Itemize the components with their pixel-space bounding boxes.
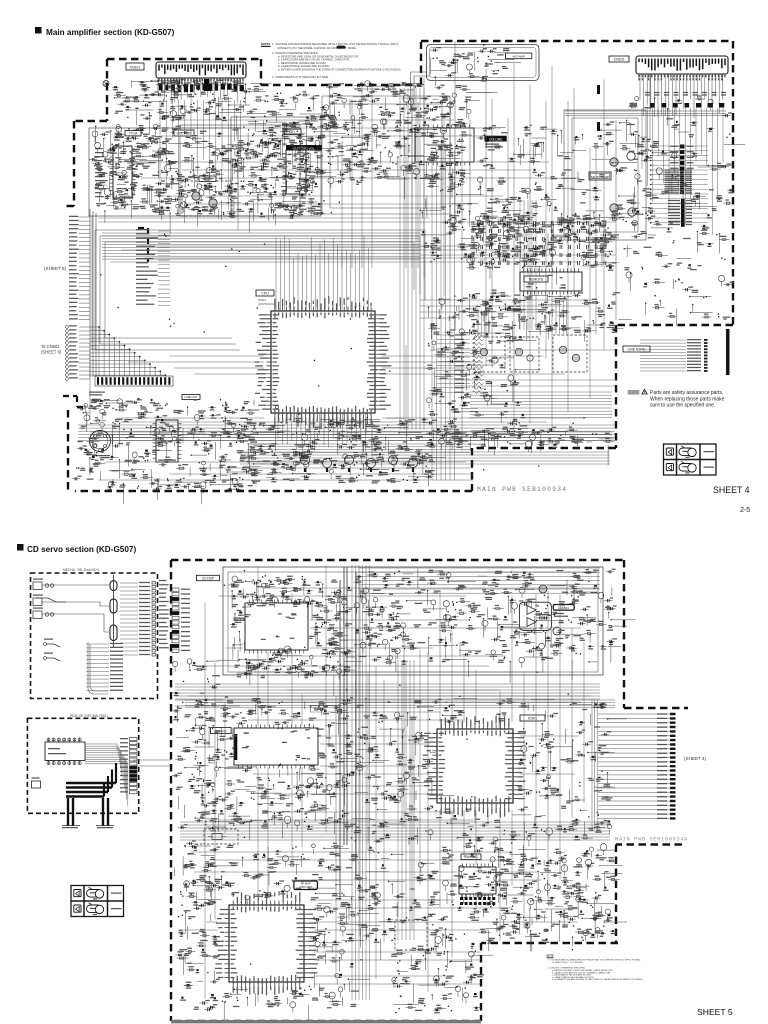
top-right op-amp block [519,602,551,630]
volume IC IC2 [415,128,474,162]
CN601 pin circles [66,326,69,381]
wires joining ladder [651,146,708,223]
tuner exit wire [410,72,430,112]
label box RF AMP heavy border [294,881,318,890]
left exit wires to CN601 [79,327,90,379]
svg-text:Parts are safety assurance par: Parts are safety assurance parts. [650,390,723,396]
svg-text:VOLUME: VOLUME [489,137,502,141]
power IC bottom-center DIP [459,867,496,894]
svg-text:(SHEET 4): (SHEET 4) [684,756,707,761]
leaf switch SW2 [36,598,66,602]
tall connector bar [681,199,685,227]
left block cluster B [174,132,175,133]
safety note gray swatch [628,390,640,395]
left edge connector ladder CD [172,588,179,591]
svg-text:Main amplifier section (KD-G50: Main amplifier section (KD-G507) [46,28,175,37]
below CPU cluster [272,451,273,452]
label box on QFP [520,715,545,721]
driver transistors [539,585,547,593]
label box LINE [182,395,200,400]
misc long horizontals [98,218,616,386]
exit connector labels [62,825,114,827]
mid-right REMOTE amp IC [520,272,582,291]
svg-text:sure to use the specified one.: sure to use the specified one. [650,403,715,409]
CPU bottom pin stub wires [278,413,365,451]
mecha U-curve wires [88,642,108,694]
nested wire loop rectangles center [322,96,450,214]
right connector column labels [704,339,708,341]
wires to right connector [640,340,686,371]
board-edge label column [159,581,169,648]
notes notch dashed border [261,42,421,85]
connector CN101 top-center [156,62,246,78]
svg-text:PICK UP (OPTIMA-7S51): PICK UP (OPTIMA-7S51) [70,714,108,718]
CN102 mid value labels [645,93,726,96]
staircase wires to CN601 connector [90,327,165,376]
black label VOLUME [485,136,507,142]
label box CD DSP [196,575,219,580]
spindle motor pill [110,581,117,591]
CD top-left cluster [302,662,303,663]
legend icon table bottom [71,886,84,902]
svg-text:IC501 6805: IC501 6805 [299,886,312,889]
section header: Main amplifier section (KD-G507) [35,27,42,34]
right of CPU cluster [484,389,485,390]
CD bottom-left cluster [295,846,296,847]
section header: CD servo section (KD-G507) [17,544,24,551]
IC702 DIP [156,420,178,462]
pin name bars for sheet5 wires [69,216,79,319]
mecha right pin ladder [152,581,155,584]
svg-text:When replacing those parts mak: When replacing those parts make [650,396,725,402]
SW sub-board bottom-left circle connector [90,431,111,452]
label LINE MUTE [623,346,650,352]
connector row label [89,392,105,395]
extra top-section long wiring grid [98,64,604,481]
CD mid-left cluster [251,798,252,799]
xtal dashed box [204,829,238,844]
bottom gray scan strip [171,1020,481,1023]
left mid label columns [158,231,170,306]
svg-text:SHEET 4: SHEET 4 [713,485,750,495]
label box LA6541 with heavy border [553,605,574,611]
bottom bus lines [78,425,615,441]
right mid cluster around MUTE AMP [564,110,646,240]
svg-text:IC601: IC601 [258,298,266,302]
digital section IC701 DIP [245,603,308,650]
svg-text:2. UNLESS OTHERWISE SPECIFIED: 2. UNLESS OTHERWISE SPECIFIED. [548,967,586,969]
sub-board outline rectangles left [89,128,238,216]
CD top-right cluster [504,658,505,659]
CD left strip cluster [197,703,198,704]
microcontroller IC601 QFP [271,311,375,413]
svg-text:SHEET 5: SHEET 5 [697,1007,733,1017]
svg-text:1. VOLTAGE AND RESISTANCE MEA: 1. VOLTAGE AND RESISTANCE MEASURED WITH … [272,42,399,46]
svg-text:(SHEET 5): (SHEET 5) [44,266,67,271]
svg-text:e. A CAPACITORS ARE SHOWN IN: e. A CAPACITORS ARE SHOWN IN THE FORM OF… [552,978,643,981]
central dashed mute box [182,181,232,216]
left vertical bus lines [90,209,96,377]
leaf switch SW3 [33,611,42,619]
center-left cluster C [218,192,219,193]
label box 77CA [125,131,141,136]
CD servo main dashed outline [171,560,688,1021]
connector between sections wires [133,700,240,766]
label MUTE AMP [589,172,611,180]
xtal symbol [212,834,222,840]
svg-text:e. B POINT(+)ARE SHOWN IN THE: e. B POINT(+)ARE SHOWN IN THE FORM OF CO… [278,68,401,72]
left exit wires to SHEET 5 [79,217,90,320]
bottom strip cluster [547,432,548,433]
photo diode IC PD1 [45,742,85,761]
transistor row bottom-center [300,455,309,464]
mute block 3 dashed [553,335,587,372]
black label ELECTRONIC VOL [286,145,322,151]
svg-text:To CN601: To CN601 [41,344,60,349]
main board dashed outline (top schematic) [64,41,733,491]
pad blacks [130,766,138,769]
label box SERVO [211,728,232,734]
electrolytic caps right [597,85,600,94]
wires below CN101 [158,78,241,104]
mechanism dashed box (pickup assembly) [31,573,158,699]
svg-text:MAIN PWB GER100934A: MAIN PWB GER100934A [615,837,688,843]
resistor array right of CPU [437,335,470,392]
svg-text:NOTE: NOTE [547,954,554,958]
cap bank cluster [522,267,523,268]
pickup wire loops to pads [85,744,128,806]
servo IC pin1 stripe [235,734,238,760]
label box VOL REG [174,130,194,136]
mute block 2 dashed [510,337,539,372]
svg-text:MAIN PWB SEB100934: MAIN PWB SEB100934 [477,486,567,493]
RF amp QFP IC502 bottom-left [229,905,304,982]
mid strip cluster [449,216,450,217]
QFP corner pin1 dot [275,405,278,408]
svg-text:NOTES: NOTES [261,42,270,46]
junction dots on grid [101,94,598,469]
long vertical bundle center [400,88,424,430]
CPU label box [256,290,274,296]
CD top strip bus rows [358,568,600,593]
big wire loop rectangles upper middle [95,230,425,350]
svg-text:77CA: 77CA [129,132,138,136]
extra CD-section wiring grid [181,565,599,1002]
CD junction dots [182,571,604,989]
center block cluster D [311,192,312,193]
under-notes cluster [283,100,284,101]
power block outline right [231,117,321,216]
label CN101 [126,63,144,70]
electronic volume IC201 [286,150,306,194]
laser diode symbol [32,781,41,788]
tuner sub-board rounded box [426,44,539,80]
bottom-left cluster [198,439,199,440]
CD center cluster [503,834,504,835]
IC2 part number [485,144,503,147]
more bottom bus lines [90,432,612,440]
CD long vertical bus lines [340,567,356,900]
servo IC702 DIP wide [234,728,318,765]
svg-text:RF AMP: RF AMP [301,882,311,886]
svg-text:uPD780344GC: uPD780344GC [258,302,276,306]
fan bus vertical [592,700,597,830]
terminal ladder group 2 dense [680,169,684,171]
right cluster F [636,170,637,171]
pickup dashed box PICK UP (OPTIMA-7S5S) [27,718,138,813]
below remote cluster [500,310,501,311]
exit notch dashed steps [63,396,86,407]
right-side vertical drops CN102 [642,108,723,235]
inner solid board rectangles [223,567,603,675]
junction dots staircase [99,327,165,375]
dashed sub box bottom-center [395,920,427,950]
svg-text:CD servo section (KD-G507): CD servo section (KD-G507) [27,545,136,554]
svg-text:MECHA : RD-11a3-0674: MECHA : RD-11a3-0674 [63,568,99,572]
horizontal bus bundle upper [102,233,420,259]
vertical drops from CN101 [160,100,241,213]
CD long horizontal buses [175,684,600,699]
note underline [261,46,271,47]
label box MUTE [199,176,216,182]
IC101 regulator DIP left [113,146,132,198]
svg-text:CONNECTION ( - ) TO REGND.: CONNECTION ( - ) TO REGND. [552,962,584,964]
svg-text:CN102: CN102 [614,58,625,62]
svg-text:3. COMPONENTS IN TT INDICATE: 3. COMPONENTS IN TT INDICATE HOT SIDE. [272,75,329,79]
zigzag resistors column [472,333,484,393]
svg-text:CPU: CPU [261,292,269,296]
svg-text:ANT AMP: ANT AMP [512,54,524,58]
mecha wires to pills [42,585,110,632]
cap bank structured rows [472,221,606,265]
tracking coil pill [110,625,117,641]
mute block 1 dashed [474,337,505,372]
IC702 part number [158,459,176,461]
svg-text:2-5: 2-5 [740,507,750,514]
top middle cluster E [356,131,357,132]
pin labels left of IC101 [95,149,106,197]
svg-text:CN101: CN101 [130,66,141,70]
warning triangle [642,389,647,394]
mute transistors Q205 Q206 [192,192,200,200]
right edge strip cluster [706,296,707,297]
transistors right [610,158,618,166]
right-side terminal ladder group 1 [680,145,685,149]
CPU top pin stub wires [276,236,368,311]
right-top horizontal bus [565,111,726,116]
bus bundle right-bottom [470,392,612,418]
flex ribbon thick traces [66,783,116,797]
svg-text:CD DSP: CD DSP [202,576,214,580]
CD bottom-center cluster [590,905,591,906]
CD inner-right cluster [573,925,574,926]
label KEY AMP [283,129,301,135]
svg-text:REMOTE: REMOTE [529,278,544,282]
dashed stub left middle [138,228,148,262]
flex exit verticals right pair [103,798,108,826]
flex exit verticals left pair [68,798,73,826]
mecha center vertical wire [113,575,115,648]
sheet4 interconnect wire fan [598,714,670,818]
svg-text:CLV (786A-A726): CLV (786A-A726) [206,825,226,829]
components under CN102 [650,103,654,108]
CN601 connector pin row [95,376,173,386]
label CN102 [609,56,629,62]
pickup pad ladder [130,738,138,741]
component row under CN101 [159,84,163,91]
svg-text:LINE OUT: LINE OUT [185,395,198,399]
svg-text:LINE MUTE: LINE MUTE [627,348,646,352]
dark connector bar right [726,329,730,375]
svg-text:IC501: IC501 [528,717,537,721]
pin pads under power IC [460,897,463,900]
screw terminal E101 [103,81,109,87]
label SW REG [461,854,481,860]
top-left component cluster A [195,94,196,95]
label under connector [92,455,110,457]
svg-text:(SHEET 6): (SHEET 6) [41,350,62,355]
connector CN102 top-right [636,56,728,74]
mecha lower label stack [86,644,109,691]
leaf switch SW1 [33,582,42,590]
focus coil pill [110,599,117,613]
CN102 fan-out wires [640,74,723,118]
limit switches lower [46,644,60,661]
tuner board components [477,61,478,62]
label box on remote IC [524,276,548,282]
central DSP QFP IC501 [437,729,513,803]
mid vertical bundle to mute blocks [478,310,488,336]
long frame wires connecting regions [90,41,650,420]
CD bottom tail cluster [446,969,447,970]
label box on tuner board [505,53,531,59]
icon legend main [664,444,677,460]
